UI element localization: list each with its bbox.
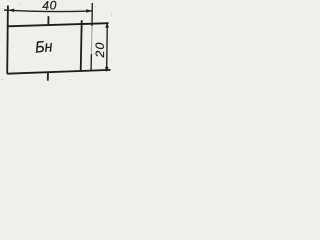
svg-text:40: 40 [42,0,57,13]
svg-text:20: 20 [93,41,107,58]
svg-text:Бн: Бн [35,38,54,57]
